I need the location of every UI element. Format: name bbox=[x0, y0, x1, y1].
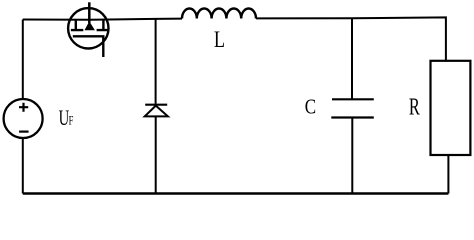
inductor L bbox=[182, 9, 256, 19]
wire: from source bottom to bottom-left corner bbox=[22, 138, 24, 194]
svg-text:F: F bbox=[69, 114, 74, 128]
wire: capacitor branch lower segment bbox=[351, 118, 353, 194]
wire: bottom rail bbox=[23, 192, 449, 195]
wire: diode branch lower segment bbox=[155, 116, 157, 193]
wire: resistor bottom stub to bottom rail bbox=[447, 155, 449, 194]
MOSFET Q gate line and lead bbox=[73, 36, 104, 57]
voltage source plus sign bbox=[19, 103, 28, 112]
voltage source minus sign bbox=[19, 131, 29, 133]
diode VD triangle bbox=[145, 106, 168, 117]
wire: top rail from inductor to top-right corner down to resistor top bbox=[256, 17, 446, 60]
diode VD cathode bar bbox=[145, 104, 167, 106]
svg-text:U: U bbox=[59, 106, 70, 131]
MOSFET Q left leg and contact bar bbox=[71, 20, 83, 30]
wire: left rail from top-left corner down to source top bbox=[22, 20, 24, 100]
MOSFET Q body circle bbox=[68, 8, 108, 48]
svg-text:R: R bbox=[409, 92, 420, 120]
svg-text:L: L bbox=[214, 28, 225, 52]
svg-text:C: C bbox=[305, 96, 316, 119]
capacitor C top plate bbox=[332, 98, 374, 100]
resistor R body bbox=[431, 61, 471, 155]
MOSFET Q drain stub bbox=[88, 2, 91, 23]
wire: capacitor branch upper segment bbox=[351, 18, 353, 99]
MOSFET Q right leg and contact bar bbox=[97, 20, 110, 30]
wire: diode branch upper segment bbox=[155, 19, 157, 104]
MOSFET Q substrate arrow bbox=[85, 21, 95, 30]
voltage source UF circle bbox=[4, 99, 43, 138]
capacitor C bottom plate bbox=[331, 116, 374, 118]
wire: top rail from input corner through MOSFET to inductor start bbox=[23, 19, 182, 20]
